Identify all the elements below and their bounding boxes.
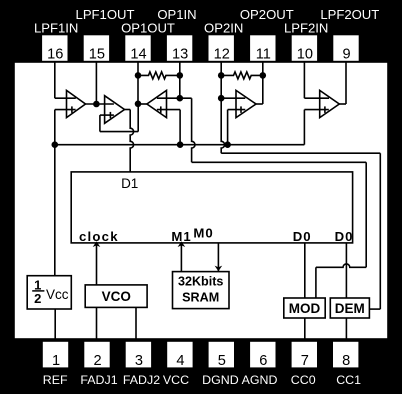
svg-text:Vcc: Vcc (46, 287, 69, 302)
svg-text:3: 3 (135, 353, 143, 369)
svg-text:DGND: DGND (202, 373, 239, 387)
svg-text:FADJ1: FADJ1 (80, 373, 117, 387)
svg-text:VCO: VCO (102, 289, 131, 304)
svg-text:11: 11 (256, 47, 271, 63)
svg-text:15: 15 (89, 47, 105, 63)
svg-text:8: 8 (342, 353, 350, 369)
svg-text:D0: D0 (335, 229, 354, 244)
svg-text:DEM: DEM (335, 301, 365, 316)
svg-text:5: 5 (218, 353, 226, 369)
svg-text:4: 4 (176, 353, 184, 369)
svg-text:CC1: CC1 (336, 373, 361, 387)
svg-text:2: 2 (34, 291, 41, 306)
svg-text:LPF1IN: LPF1IN (34, 20, 78, 35)
svg-text:LPF2IN: LPF2IN (284, 20, 328, 35)
svg-text:OP2IN: OP2IN (204, 20, 243, 35)
svg-text:32Kbits: 32Kbits (178, 275, 224, 289)
svg-text:M0: M0 (193, 226, 213, 241)
svg-text:D1: D1 (121, 176, 138, 191)
svg-text:7: 7 (301, 353, 309, 369)
svg-text:14: 14 (130, 47, 146, 63)
svg-text:MOD: MOD (289, 301, 321, 316)
svg-text:16: 16 (47, 47, 63, 63)
svg-text:D0: D0 (293, 229, 312, 244)
svg-text:REF: REF (43, 373, 68, 387)
svg-text:12: 12 (214, 47, 230, 63)
svg-text:CC0: CC0 (291, 373, 316, 387)
svg-text:13: 13 (172, 47, 188, 63)
svg-text:2: 2 (93, 353, 101, 369)
svg-text:FADJ2: FADJ2 (123, 373, 160, 387)
svg-text:OP1OUT: OP1OUT (121, 20, 175, 35)
svg-text:AGND: AGND (242, 373, 278, 387)
svg-text:SRAM: SRAM (182, 291, 219, 305)
svg-text:1: 1 (52, 353, 60, 369)
svg-text:clock: clock (79, 229, 119, 244)
svg-text:LPF2OUT: LPF2OUT (320, 7, 379, 22)
svg-text:6: 6 (259, 353, 267, 369)
svg-text:9: 9 (342, 47, 350, 63)
svg-text:VCC: VCC (163, 373, 189, 387)
svg-text:10: 10 (297, 47, 313, 63)
